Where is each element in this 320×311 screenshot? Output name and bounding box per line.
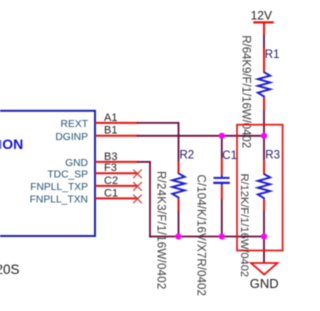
- resistor R2 pin bottom: [178, 199, 180, 211]
- capacitor C1 pin top: [221, 158, 223, 175]
- svg-text:C/104/K/16V/X7R/0402: C/104/K/16V/X7R/0402: [194, 175, 206, 297]
- highlight box around R3: [237, 125, 283, 251]
- no-connect X on pin F3: [133, 170, 142, 179]
- capacitor C1 top plate: [214, 177, 230, 179]
- svg-text:TDC_SP: TDC_SP: [47, 170, 88, 181]
- resistor R3 pin bottom: [263, 199, 265, 210]
- power symbol stub: [263, 22, 265, 34]
- capacitor C1 bottom stub blue: [221, 183, 223, 186]
- svg-text:12V: 12V: [251, 9, 272, 23]
- pin stub B1: [95, 135, 138, 137]
- capacitor C1 bottom plate: [213, 182, 230, 184]
- pin stub A1: [95, 122, 138, 124]
- no-connect X on pin C2: [133, 182, 142, 191]
- wire A1 vertical drop to B1 net: [178, 123, 180, 137]
- wire A1 horizontal: [137, 122, 179, 124]
- pin stub C2: [95, 185, 138, 187]
- svg-text:B1: B1: [104, 125, 117, 137]
- resistor R2 pin top: [178, 162, 180, 174]
- svg-text:C1: C1: [104, 187, 118, 199]
- svg-text:R3: R3: [265, 150, 280, 162]
- junction dot bus/R3: [261, 233, 267, 239]
- svg-text:DGINP: DGINP: [55, 132, 88, 143]
- svg-text:F3: F3: [104, 162, 117, 174]
- resistor R3 zigzag: [258, 174, 270, 199]
- pin stub B3: [95, 161, 138, 163]
- resistor R1 pin top: [263, 49, 265, 73]
- op-amp U? : IC body rectangle (left edge off-canvas): [0, 111, 95, 236]
- wire bottom bus horizontal: [149, 236, 265, 238]
- svg-text:R2: R2: [180, 150, 195, 162]
- IC part name clipped letter sliver: [0, 140, 1, 149]
- wire C1 lower: [221, 199, 223, 237]
- pin stub C1: [95, 197, 138, 199]
- no-connect X on pin C1: [133, 195, 142, 204]
- wire C1 upper: [221, 136, 223, 159]
- resistor R3 pin top: [263, 160, 265, 174]
- wire 12V to R1: [263, 35, 265, 49]
- power symbol 12V bar: [253, 21, 273, 23]
- wire B1 horizontal to R3: [137, 135, 265, 137]
- svg-text:B3: B3: [104, 151, 117, 163]
- junction dot B1/R3: [261, 133, 267, 139]
- svg-text:C2: C2: [104, 175, 118, 187]
- capacitor C1 top stub blue: [221, 175, 223, 178]
- wire R1 to junction: [263, 111, 265, 161]
- wire R3 to bus: [263, 211, 265, 237]
- svg-text:R/24K3/F/1/16W/0402: R/24K3/F/1/16W/0402: [155, 171, 167, 290]
- svg-text:R1: R1: [265, 49, 280, 61]
- wire R2 lower: [178, 211, 180, 237]
- junction dot bus/C1: [219, 233, 225, 239]
- wire B3 vertical down: [149, 162, 151, 238]
- capacitor C1 pin bottom: [221, 186, 223, 200]
- junction dot bus/R2: [175, 233, 181, 239]
- svg-text:20S: 20S: [0, 262, 20, 277]
- svg-text:FNPLL_TXN: FNPLL_TXN: [30, 195, 88, 206]
- wire bus to GND: [263, 237, 265, 264]
- svg-text:R/12K/F/1/16W/0402: R/12K/F/1/16W/0402: [238, 174, 250, 278]
- resistor R1 zigzag: [258, 72, 270, 97]
- resistor R2 zigzag: [172, 173, 184, 198]
- svg-text:A1: A1: [104, 112, 117, 124]
- junction dot B1/C1: [219, 133, 225, 139]
- resistor R1 pin bottom: [263, 98, 265, 111]
- svg-text:FNPLL_TXP: FNPLL_TXP: [30, 182, 88, 193]
- svg-text:REXT: REXT: [61, 119, 89, 130]
- svg-text:GND: GND: [250, 276, 279, 291]
- wire R2 upper: [178, 136, 180, 162]
- svg-text:R/64K9/F/1/16W/0402: R/64K9/F/1/16W/0402: [239, 35, 251, 148]
- svg-text:C1: C1: [222, 150, 237, 162]
- ground symbol triangle: [251, 263, 277, 275]
- svg-text:ON: ON: [2, 136, 23, 152]
- pin stub F3: [95, 172, 138, 174]
- wire B3 horizontal: [137, 161, 151, 163]
- svg-text:GND: GND: [65, 158, 88, 169]
